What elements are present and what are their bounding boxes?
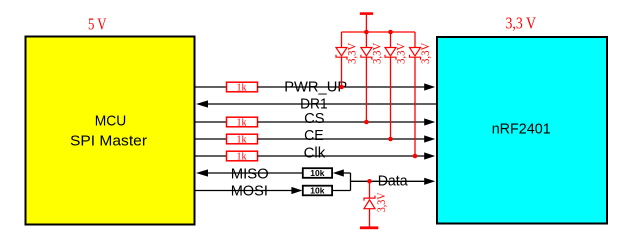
svg-text:10k: 10k <box>310 185 324 195</box>
zener D3 3,3V <box>385 48 396 60</box>
arrow toward R6 <box>291 187 302 194</box>
arrow into nRF2401 Data <box>424 178 435 185</box>
arrow toward R5 <box>333 169 344 176</box>
svg-text:10k: 10k <box>310 168 324 178</box>
zener D1 3,3V <box>336 48 347 60</box>
wire MOSI right stub <box>332 190 350 192</box>
resistor R1 1k <box>227 82 258 92</box>
arrow into MCU MISO <box>196 169 208 176</box>
svg-text:MOSI: MOSI <box>231 182 268 199</box>
resistor R2 1k <box>227 117 258 127</box>
svg-text:MISO: MISO <box>231 165 269 182</box>
arrow into nRF2401 PWR_UP <box>424 83 435 90</box>
power bar 3.3V rail <box>360 12 373 15</box>
wire Data <box>351 180 427 182</box>
wire MISO <box>207 172 303 174</box>
svg-text:3,3 V: 3,3 V <box>506 14 537 33</box>
wire D5 bottom <box>369 209 371 227</box>
resistor R6 10k <box>303 186 332 196</box>
node D2-CS junction <box>364 120 369 125</box>
svg-text:SPI Master: SPI Master <box>70 132 147 149</box>
resistor R4 1k <box>227 151 258 161</box>
wire vertical MISO-MOSI join <box>350 173 352 191</box>
node rail-stem junction <box>364 30 369 35</box>
wire D2 bottom <box>365 57 367 122</box>
wire rail stem <box>365 15 367 47</box>
wire D3 top <box>390 32 392 47</box>
wire CS right segment <box>258 121 427 123</box>
zener D5 3,3V <box>364 196 375 209</box>
svg-text:3,3V: 3,3V <box>396 42 408 64</box>
svg-text:PWR_UP: PWR_UP <box>284 79 347 96</box>
svg-text:1k: 1k <box>237 152 247 163</box>
svg-text:Data: Data <box>378 173 409 190</box>
arrow into nRF2401 CS <box>424 118 435 125</box>
svg-text:3,3V: 3,3V <box>347 42 359 64</box>
wire D3 bottom <box>390 57 392 139</box>
node D3-CE junction <box>388 137 393 142</box>
svg-text:CS: CS <box>304 110 324 127</box>
svg-text:1k: 1k <box>237 118 247 129</box>
svg-text:3,3V: 3,3V <box>372 42 384 64</box>
svg-text:5 V: 5 V <box>88 14 107 33</box>
svg-text:3,3V: 3,3V <box>376 192 388 212</box>
wire Clk left segment <box>195 155 227 157</box>
wire PWR_UP right segment <box>258 86 427 88</box>
wire CE right segment <box>258 138 427 140</box>
arrow into MCU DR1 <box>196 100 208 107</box>
wire D5 top <box>369 181 371 198</box>
wire Clk right segment <box>258 155 427 157</box>
wire D4 top <box>414 32 416 47</box>
ground bar bottom <box>360 226 378 229</box>
svg-text:1k: 1k <box>237 135 247 146</box>
wire MISO right stub <box>343 172 351 174</box>
wire DR1 <box>207 103 436 105</box>
wire PWR_UP left segment <box>195 86 227 88</box>
svg-text:nRF2401: nRF2401 <box>492 120 551 137</box>
node D1-PWR_UP junction <box>339 85 344 90</box>
svg-text:CE: CE <box>304 127 324 144</box>
resistor R5 10k <box>303 168 332 178</box>
svg-text:3,3V: 3,3V <box>420 42 432 64</box>
nRF2401 block U2 <box>437 37 607 224</box>
zener D2 3,3V <box>361 48 372 60</box>
wire CE left segment <box>195 138 227 140</box>
node D4-Clk junction <box>413 154 418 159</box>
zener D4 3,3V <box>410 48 421 60</box>
wire D1 top <box>341 32 343 47</box>
wire D1 bottom <box>341 57 343 87</box>
resistor R3 1k <box>227 134 258 144</box>
svg-text:Clk: Clk <box>304 145 326 162</box>
node rail D3 junction <box>388 30 393 35</box>
wire CS left segment <box>195 121 227 123</box>
wire rail horizontal <box>342 31 416 33</box>
node Data junction <box>367 179 372 184</box>
MCU block U1 <box>26 37 195 225</box>
svg-text:MCU: MCU <box>95 112 127 129</box>
arrow into nRF2401 CE <box>424 135 435 142</box>
svg-text:1k: 1k <box>237 83 247 94</box>
arrow into nRF2401 Clk <box>424 152 435 159</box>
wire D4 bottom <box>414 57 416 156</box>
wire MOSI <box>195 190 292 192</box>
